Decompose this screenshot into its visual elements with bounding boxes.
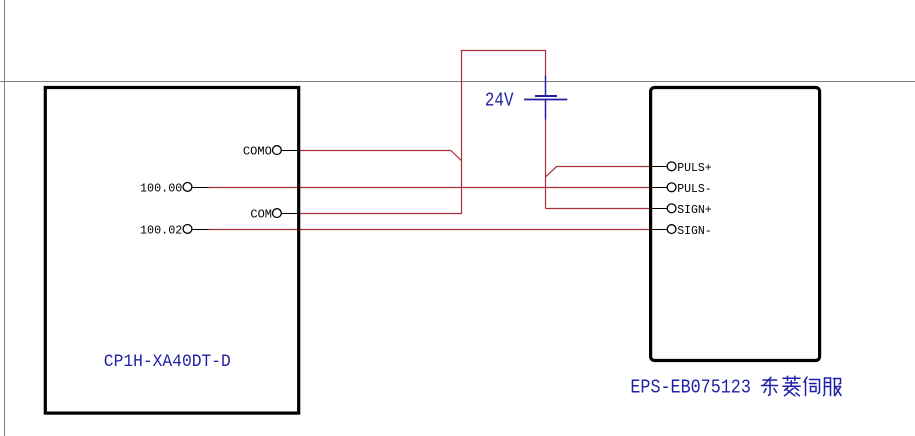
frame border vertical line: [4, 0, 6, 436]
servo label CJK 东菱伺服 (drawn strokes): [762, 376, 842, 396]
wire branch to PULS+ (diagonal + horizontal): [546, 167, 650, 177]
terminal stub COM: [277, 213, 297, 215]
wire COMO to node A (horizontal + diagonal): [300, 151, 461, 161]
svg-text:SIGN-: SIGN-: [677, 224, 712, 238]
wire left vertical 24V supply: [461, 50, 463, 214]
svg-text:CP1H-XA40DT-D: CP1H-XA40DT-D: [104, 352, 231, 372]
svg-text:SIGN+: SIGN+: [677, 203, 712, 217]
svg-text:PULS+: PULS+: [677, 161, 712, 175]
terminal stub COMO: [277, 150, 297, 152]
char 伺: [804, 377, 820, 396]
svg-text:24V: 24V: [485, 89, 514, 111]
terminal stub SIGN-: [652, 229, 671, 231]
svg-text:COM: COM: [250, 208, 272, 222]
servo drive box EPS-EB075123: [651, 88, 820, 361]
wire branch to SIGN+: [546, 208, 650, 210]
svg-text:100.00: 100.00: [140, 181, 182, 195]
wire COM to node A: [300, 213, 462, 215]
char 服: [824, 378, 842, 396]
terminal circle SIGN+: [667, 204, 676, 213]
wire top horizontal 24V supply: [461, 50, 546, 52]
frame border horizontal line: [0, 81, 915, 83]
terminal circle COMO: [273, 146, 282, 155]
terminal circle SIGN-: [667, 225, 676, 234]
terminal circle 100.02: [183, 225, 192, 234]
terminal stub 100.02: [188, 229, 209, 231]
svg-text:100.02: 100.02: [140, 223, 182, 237]
battery B1 24V: [524, 76, 567, 120]
svg-text:EPS-EB075123: EPS-EB075123: [630, 377, 751, 399]
svg-text:COMO: COMO: [243, 144, 272, 158]
terminal circle COM: [273, 209, 282, 218]
terminal stub PULS-: [652, 187, 671, 189]
wire right vertical upper (to battery +): [545, 51, 547, 76]
svg-text:PULS-: PULS-: [677, 182, 712, 196]
terminal circle PULS-: [667, 183, 676, 192]
terminal stub PULS+: [652, 166, 671, 168]
char 东: [762, 377, 778, 395]
wire 100.00 to PULS-: [209, 187, 649, 189]
wire right vertical lower (from battery -): [545, 120, 547, 209]
wire 100.02 to SIGN-: [209, 229, 649, 231]
char 菱: [783, 376, 800, 396]
PLC box CP1H-XA40DT-D: [45, 88, 298, 414]
terminal stub SIGN+: [652, 208, 671, 210]
terminal stub 100.00: [188, 187, 209, 189]
terminal circle 100.00: [183, 183, 192, 192]
terminal circle PULS+: [667, 162, 676, 171]
